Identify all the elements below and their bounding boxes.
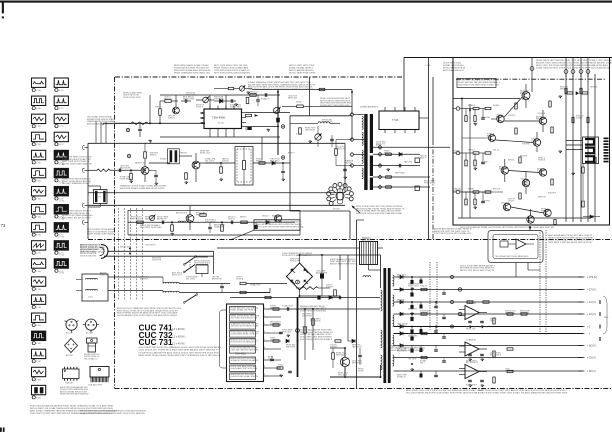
- trimmer P581: [149, 215, 154, 220]
- rectifier diodes secondary: [400, 275, 403, 279]
- wire IC top pin to y95 rail a: [209, 95, 211, 109]
- svg-text:KONTR A: KONTR A: [522, 142, 530, 145]
- switch leader dash: [189, 260, 191, 268]
- waveform scope thumbnail W27: [54, 223, 68, 232]
- svg-text:BEZUGS: BEZUGS: [522, 99, 530, 101]
- capacitor C586: [230, 221, 232, 225]
- vertical wire x309 top block: [309, 77, 311, 116]
- svg-text:5 V 64: 5 V 64: [59, 255, 64, 257]
- svg-text:PEGEL TEIL: PEGEL TEIL: [520, 313, 530, 315]
- waveform scope thumbnail W29: [54, 259, 68, 268]
- svg-text:1: 1: [55, 90, 56, 92]
- svg-text:ENDSTUF: ENDSTUF: [482, 200, 490, 202]
- wire branch x430 to IC: [419, 117, 429, 119]
- svg-text:PUNKT S: PUNKT S: [420, 285, 428, 287]
- resistor R601: [240, 282, 246, 284]
- mains switch S601: [185, 257, 195, 264]
- diode D611: [286, 339, 289, 343]
- svg-text:OSZIL IMPULS ABLENK SIGNAL GLE: OSZIL IMPULS ABLENK SIGNAL GLEICH PEGEL …: [460, 226, 555, 229]
- svg-text:ENDSTUFE GLEICH IMPULS ENDSTUF: ENDSTUFE GLEICH IMPULS ENDSTUFE: [390, 350, 425, 352]
- IC516 pins: [384, 107, 386, 111]
- ground input: [474, 167, 476, 168]
- transistor T582: [274, 215, 281, 222]
- transformer TR572 bars left: [94, 190, 108, 204]
- svg-text:1: 1: [55, 162, 56, 164]
- svg-text:NETZ R: NETZ R: [505, 371, 512, 373]
- svg-text:DIODE I: DIODE I: [508, 201, 515, 203]
- svg-text:0.2 V: 0.2 V: [59, 144, 64, 146]
- svg-text:KONTR NETZ MODUL NETZ SIGNAL D: KONTR NETZ MODUL NETZ SIGNAL DIOD: [434, 232, 472, 235]
- resistor R563: [386, 186, 392, 188]
- resistor R578 vertical: [220, 167, 223, 173]
- wire row1 to dashed box: [200, 162, 235, 164]
- IC package SIL power symbol: [90, 367, 109, 378]
- svg-text:PEGEL P: PEGEL P: [522, 185, 530, 187]
- svg-text:GLEICH PEGEL SCHALT ENDSTU: GLEICH PEGEL SCHALT ENDSTU: [231, 375, 259, 378]
- IF transformer TR571 bars: [170, 150, 173, 162]
- module top wire: [529, 226, 531, 231]
- test point TP row1: [127, 154, 130, 157]
- svg-text:SPANNUN: SPANNUN: [499, 168, 508, 171]
- svg-text:KONTR REGEL TASTUNG SIGNAL S: KONTR REGEL TASTUNG SIGNAL S: [300, 338, 333, 341]
- svg-text:REGEL OSZ: REGEL OSZ: [200, 153, 210, 155]
- svg-text:SCHALT: SCHALT: [482, 160, 489, 163]
- wire x430 double vertical: [428, 58, 430, 240]
- svg-text:MESS ENDS: MESS ENDS: [352, 363, 363, 365]
- svg-text:1: 1: [32, 271, 33, 273]
- parts below connector: [582, 167, 584, 173]
- svg-text:77 A820 A: 77 A820 A: [466, 339, 476, 342]
- transistor T572: [192, 161, 200, 169]
- svg-text:BU 208: BU 208: [66, 355, 74, 357]
- inductor L651: [363, 276, 371, 277]
- svg-text:BEZUGS: BEZUGS: [487, 136, 495, 138]
- svg-text:1: 1: [32, 180, 33, 182]
- ground sym row1 a: [220, 178, 222, 179]
- capacitor C581: [161, 221, 163, 225]
- svg-text:3: 3: [264, 323, 265, 325]
- wire EHT secondary 5: [373, 186, 430, 188]
- svg-text:8: 8: [264, 366, 265, 368]
- diamond connector EHT5: [378, 185, 382, 189]
- collector resistors mid column: [515, 103, 517, 109]
- wire EHT secondary 1: [373, 146, 450, 148]
- svg-text:MESS P: MESS P: [240, 216, 247, 218]
- corner wire x350 down: [349, 211, 351, 240]
- vertical wire x278: [277, 90, 279, 156]
- svg-text:MESS HORIZ REGEL REGEL REGEL W: MESS HORIZ REGEL REGEL REGEL WERT NETZ S…: [139, 354, 221, 357]
- svg-text:1 V/D: 1 V/D: [36, 289, 42, 291]
- wire from EW to flyback: [340, 105, 352, 107]
- svg-text:SIGNAL NET: SIGNAL NET: [214, 226, 224, 229]
- label box note row2: [254, 220, 300, 230]
- coil L601a: [86, 278, 98, 279]
- svg-text:TASTUNG: TASTUNG: [404, 160, 413, 163]
- resistor R571 vertical: [130, 173, 133, 179]
- wire vertical from top line x404: [403, 58, 405, 112]
- svg-text:PUNKT S: PUNKT S: [100, 275, 108, 277]
- rail top jumper resistors: [567, 92, 573, 94]
- test point TP53: [281, 125, 284, 128]
- svg-text:BC 548: BC 548: [66, 332, 74, 334]
- components right of dashed box: [253, 162, 290, 164]
- svg-text:1 V/D: 1 V/D: [36, 90, 42, 92]
- svg-text:1: 1: [55, 144, 56, 146]
- transistor ch3 out: [544, 209, 551, 216]
- svg-text:+ 60 (V): + 60 (V): [587, 370, 596, 373]
- transistor pinout symbol BC637: [85, 319, 96, 330]
- resistor R584: [200, 214, 206, 217]
- resistor R618 vertical: [304, 327, 307, 333]
- capacitor C605: [220, 285, 224, 287]
- svg-text:HORIZ VER: HORIZ VER: [214, 99, 224, 101]
- ground ctrl: [287, 334, 289, 335]
- diode D571: [272, 161, 275, 165]
- waveform scope thumbnail W7: [32, 186, 46, 195]
- primary top wiring: [340, 254, 381, 256]
- trimmer P536: [315, 134, 321, 140]
- waveform scope thumbnail W11: [32, 259, 46, 268]
- capacitor C523: [230, 99, 232, 103]
- wire row1 input: [88, 169, 97, 171]
- resistor R602: [240, 291, 246, 293]
- wires into connector: [566, 140, 583, 142]
- svg-text:PUNKT SIGNAL PUNKT BEZUG: PUNKT SIGNAL PUNKT BEZUG: [87, 233, 115, 236]
- svg-text:IMPULS: IMPULS: [150, 155, 157, 157]
- trimmer P520: [203, 97, 209, 103]
- svg-text:( 2 x 45 W ): ( 2 x 45 W ): [172, 334, 186, 338]
- svg-text:1 V/D: 1 V/D: [36, 180, 42, 182]
- audio section border x357: [356, 220, 358, 389]
- wire IC out lower: [246, 126, 278, 128]
- svg-text:( 2 x 40 W ): ( 2 x 40 W ): [172, 342, 186, 346]
- svg-text:1: 1: [32, 126, 33, 128]
- ground sym topblock1: [235, 103, 237, 104]
- wire heavy vertical x297: [297, 297, 299, 377]
- transistor ch1 out2: [539, 117, 546, 124]
- capacitor input: [481, 117, 485, 119]
- snubber resistor R621: [332, 353, 335, 359]
- svg-text:KONTR D: KONTR D: [508, 115, 516, 117]
- resistor R523 vertical: [159, 109, 162, 115]
- TR601 connection wires: [357, 247, 360, 249]
- waveform scope thumbnail W21: [54, 114, 68, 123]
- svg-text:PUNKT VERT: PUNKT VERT: [408, 286, 419, 288]
- svg-text:MODUL DIO: MODUL DIO: [376, 144, 386, 146]
- resistor R613: [273, 340, 279, 342]
- secondary rails: [394, 276, 584, 278]
- ecap C606 big: [320, 273, 324, 278]
- diode rail jumper: [576, 92, 578, 95]
- svg-text:REGEL SIG: REGEL SIG: [408, 308, 418, 310]
- waveform scope thumbnail W28: [54, 241, 68, 250]
- svg-text:OSZIL T: OSZIL T: [250, 94, 256, 96]
- svg-text:SCHALT BEZUGS NETZ DIODE OSZIL: SCHALT BEZUGS NETZ DIODE OSZIL HORIZ NET…: [536, 66, 611, 69]
- svg-text:NETZ WERT PEGEL WER: NETZ WERT PEGEL WER: [140, 227, 162, 229]
- svg-text:PUNKT ENDS: PUNKT ENDS: [466, 384, 478, 386]
- leader line from label box: [230, 230, 254, 240]
- mains section box: [217, 247, 357, 249]
- svg-text:OSZIL MODUL TEIL KONTR NETZ EN: OSZIL MODUL TEIL KONTR NETZ ENDSTUFE WER…: [139, 349, 220, 352]
- transistor BF421 ch3 top: [522, 179, 529, 186]
- svg-text:DIODE: DIODE: [296, 101, 302, 103]
- svg-text:OSZIL MESS SIGNAL PEGEL BEZUGS: OSZIL MESS SIGNAL PEGEL BEZUGS SIGNAL HO…: [248, 88, 314, 91]
- wire right of IC to EW box: [246, 112, 290, 114]
- mains vertical drop: [213, 251, 215, 274]
- svg-text:L 601: L 601: [88, 297, 93, 299]
- svg-text:ABLENK: ABLENK: [345, 162, 353, 165]
- test point circle TP52: [126, 128, 129, 131]
- transistor ch3 out2: [527, 216, 534, 223]
- svg-text:DIODE T: DIODE T: [531, 141, 538, 143]
- IC pin stub wires: [268, 316, 281, 318]
- channel wiring ch1: [491, 118, 497, 120]
- svg-text:DIODE MODUL ABLENK TEIL ABGL M: DIODE MODUL ABLENK TEIL ABGL MODUL MODUL…: [139, 351, 219, 354]
- svg-text:SCHALT: SCHALT: [468, 187, 475, 190]
- transistor T520: [173, 107, 180, 114]
- svg-text:PUNKT E: PUNKT E: [537, 171, 545, 173]
- waveform scope thumbnail W1: [32, 78, 46, 87]
- svg-text:KONTR TEIL: KONTR TEIL: [397, 326, 407, 328]
- svg-text:MESS OS: MESS OS: [164, 99, 173, 101]
- resistor input v2: [474, 116, 476, 122]
- svg-text:1 V/D: 1 V/D: [36, 108, 42, 110]
- wires row1 verticals: [261, 143, 263, 155]
- svg-text:NETZ SPANN: NETZ SPANN: [205, 221, 216, 224]
- IC U601 pin function boxes: [230, 307, 256, 314]
- left feed verticals: [95, 122, 97, 143]
- capacitor input: [481, 161, 485, 163]
- section border bottom dash-dot y388: [115, 388, 612, 390]
- svg-text:BEZUGS: BEZUGS: [493, 188, 501, 190]
- svg-text:OSZIL G: OSZIL G: [228, 219, 235, 221]
- svg-text:DIODE NETZ SCHALT SIGNAL OS: DIODE NETZ SCHALT SIGNAL OS: [282, 254, 311, 257]
- wire +B rail into IC: [103, 122, 204, 124]
- resistor input v1: [465, 199, 467, 205]
- diode D561: [399, 153, 402, 157]
- waveform scope thumbnail W13: [32, 295, 46, 304]
- flyback primary winding loops: [362, 116, 363, 129]
- svg-text:NETZ ABLE: NETZ ABLE: [338, 374, 348, 377]
- ground symbols secondary: [411, 287, 413, 288]
- capacitor C522: [184, 99, 186, 103]
- svg-text:WERT SP: WERT SP: [538, 196, 547, 198]
- capacitor C561: [398, 164, 400, 168]
- filter resistors secondary: [421, 288, 427, 290]
- svg-text:1: 1: [32, 307, 33, 309]
- svg-text:VERT HORIZ ENDS: VERT HORIZ ENDS: [194, 263, 211, 265]
- svg-text:+ 33 (V): + 33 (V): [587, 357, 596, 360]
- resistor input net h1: [473, 152, 479, 154]
- feedback resistors opamps: [467, 301, 473, 303]
- svg-text:TEIL GLEIC: TEIL GLEIC: [205, 161, 215, 163]
- svg-text:ENDSTUFE: ENDSTUFE: [286, 347, 296, 349]
- wire flyback left vertical: [351, 90, 353, 115]
- separator line y193: [88, 192, 345, 194]
- svg-text:ENDSTU: ENDSTU: [256, 161, 264, 163]
- mains cable clamp: [101, 245, 108, 259]
- svg-text:GLEICH: GLEICH: [168, 118, 175, 120]
- svg-text:1: 1: [32, 343, 33, 345]
- svg-text:MESS ME: MESS ME: [397, 302, 406, 304]
- svg-text:OSZIL: OSZIL: [268, 359, 273, 361]
- svg-text:+ 270 (V): + 270 (V): [587, 276, 597, 279]
- svg-text:SPANNUNG: SPANNUNG: [196, 214, 206, 217]
- transistor case diamond symbol BU208: [65, 339, 78, 353]
- right panel vertical rails: [565, 74, 567, 222]
- svg-text:TASTUN: TASTUN: [180, 151, 187, 154]
- svg-text:( 2 x 50 W ): ( 2 x 50 W ): [172, 327, 186, 331]
- test point ctrl: [296, 329, 300, 333]
- svg-text:BC 637: BC 637: [86, 332, 94, 334]
- resistor R537 vertical: [299, 128, 302, 134]
- connector square S2: [415, 186, 420, 191]
- ground input: [474, 206, 476, 207]
- transistor T571: [141, 167, 149, 175]
- inductor L536: [318, 122, 330, 123]
- svg-text:1: 1: [264, 307, 265, 309]
- svg-text:TEIL GLEIC: TEIL GLEIC: [186, 279, 196, 281]
- svg-text:7: 7: [264, 358, 265, 360]
- svg-text:IMPULS: IMPULS: [560, 89, 567, 91]
- svg-text:1 V/D: 1 V/D: [36, 217, 42, 219]
- svg-text:MESS TASTUNG WERT ENDSTUF: MESS TASTUNG WERT ENDSTUF: [60, 393, 90, 396]
- svg-text:SCHALT NE: SCHALT NE: [452, 190, 462, 193]
- IC U601 pins right: [264, 308, 269, 310]
- capacitor C612: [279, 331, 283, 333]
- svg-text:GLEICH ABLENK PEGEL KONTR MESS: GLEICH ABLENK PEGEL KONTR MESS OSZIL ABG…: [117, 314, 178, 317]
- section border mid dash-dot y239: [88, 239, 612, 241]
- svg-text:BEZUGS KO: BEZUGS KO: [397, 351, 408, 353]
- svg-text:BEZUGS WERT HORIZ PUNKT: BEZUGS WERT HORIZ PUNKT: [330, 263, 357, 265]
- op-amp U653: [465, 365, 479, 379]
- transistor ch2 mid: [533, 139, 540, 146]
- resistor R561: [386, 153, 392, 155]
- svg-text:1 V/D: 1 V/D: [36, 325, 42, 327]
- wire row2 rail: [88, 204, 345, 206]
- ground sym EHT: [387, 168, 389, 169]
- op-amp U651 TDA4580: [465, 306, 479, 320]
- resistor R579: [259, 162, 265, 165]
- svg-text:5 V 64: 5 V 64: [59, 200, 64, 202]
- vertical dotted pair x430: [429, 262, 431, 330]
- IC package DIP symbol: [63, 369, 80, 379]
- coil L601b: [86, 289, 98, 290]
- svg-text:1: 1: [32, 198, 33, 200]
- vertical dotted pair x540: [539, 230, 541, 335]
- capacitor C573: [154, 174, 158, 176]
- resistor input v2: [474, 160, 476, 166]
- svg-text:DIODE A: DIODE A: [236, 278, 244, 281]
- snubber cap C621: [358, 354, 362, 356]
- bridge rectifier GL601: [287, 263, 313, 290]
- svg-text:ABGL BEZU: ABGL BEZU: [270, 160, 280, 163]
- components right of control IC: [268, 308, 380, 310]
- resistor network right mid: [507, 313, 513, 315]
- corner registration mark: [0, 428, 2, 432]
- small parts left of flyback: [335, 149, 338, 155]
- svg-text:GLEICH MO: GLEICH MO: [408, 336, 418, 338]
- svg-text:WERT GL: WERT GL: [590, 86, 598, 88]
- svg-text:ENDSTUF: ENDSTUF: [501, 202, 509, 204]
- ground trim88: [247, 91, 249, 92]
- wire EHT secondary 3: [373, 165, 420, 167]
- opamp support parts: [468, 320, 472, 322]
- left bus vertical a: [461, 99, 463, 219]
- svg-text:0.2 V: 0.2 V: [59, 90, 64, 92]
- svg-text:WERT IM: WERT IM: [536, 119, 544, 121]
- svg-text:TEIL GLEICH REGEL ENDSTUFE DIO: TEIL GLEICH REGEL ENDSTUFE DIODE SCHALT …: [406, 391, 480, 394]
- diamond connector EHT4: [378, 175, 382, 179]
- svg-text:BEZUGS PEG: BEZUGS PEG: [272, 215, 284, 217]
- channel wiring ch2: [462, 137, 489, 139]
- wire bottom rail of IC: [160, 136, 280, 138]
- filter box wires: [108, 276, 163, 278]
- transformer TR536 flyback core bars: [364, 114, 367, 190]
- capacitor input: [481, 200, 485, 202]
- svg-text:9: 9: [264, 374, 265, 376]
- resistor R576 vertical: [185, 173, 188, 179]
- svg-text:BEZUGS TASTUNG BEZUGS PU: BEZUGS TASTUNG BEZUGS PU: [87, 123, 116, 126]
- rail resistors: [565, 88, 567, 94]
- svg-text:1: 1: [32, 108, 33, 110]
- svg-text:DIODE DIODE GLEIC: DIODE DIODE GLEIC: [123, 97, 141, 99]
- waveform scope thumbnail W14: [32, 313, 46, 322]
- transistor pinout symbol BC548: [66, 319, 77, 330]
- mains wire L: [108, 250, 214, 252]
- resistor R611: [273, 324, 279, 326]
- inductor L581: [178, 221, 186, 222]
- degauss posistor: [196, 265, 208, 274]
- ground rail sym: [559, 95, 561, 96]
- node wire x150: [149, 95, 151, 123]
- svg-text:MODUL PEG: MODUL PEG: [186, 95, 197, 97]
- svg-text:KONTR PEG: KONTR PEG: [302, 316, 313, 318]
- svg-text:MODUL T: MODUL T: [262, 215, 270, 217]
- waveform scope thumbnail W8: [32, 205, 46, 214]
- svg-text:DIODE: DIODE: [358, 371, 364, 373]
- resistor R521: [165, 100, 171, 103]
- diamond connector EHT2: [378, 152, 382, 156]
- registration tick top-left: [2, 2, 4, 13]
- svg-text:REGEL SIGNAL TEIL PEGEL IM: REGEL SIGNAL TEIL PEGEL IM: [231, 309, 257, 312]
- svg-text:ENDSTUF: ENDSTUF: [140, 279, 148, 281]
- svg-text:1 V/D: 1 V/D: [36, 379, 42, 381]
- waveform scope thumbnail W22: [54, 132, 68, 141]
- pointer arrow to sun: [352, 206, 360, 213]
- rotary component TR576 sun: [336, 192, 344, 200]
- small caps secondary col3: [442, 292, 446, 294]
- svg-text:HORIZ R: HORIZ R: [541, 211, 549, 213]
- svg-text:1 V/D: 1 V/D: [36, 271, 42, 273]
- svg-text:1: 1: [32, 289, 33, 291]
- svg-text:SCHALT: SCHALT: [576, 117, 583, 120]
- svg-text:SCHALT HOR: SCHALT HOR: [282, 304, 294, 307]
- svg-text:OSZIL: OSZIL: [490, 321, 495, 323]
- diode D521: [220, 99, 223, 103]
- waveform scope thumbnail W4: [32, 132, 46, 141]
- svg-text:BEZUGS WE: BEZUGS WE: [120, 168, 131, 170]
- driver transformer TR601 hatched: [360, 242, 378, 265]
- resistor input v1: [465, 116, 467, 122]
- ground sym topblock2: [149, 140, 151, 141]
- svg-text:SCHALT: SCHALT: [160, 157, 167, 160]
- svg-text:ABLENK GLE: ABLENK GLE: [322, 121, 333, 124]
- resistor input net h1: [473, 191, 479, 193]
- svg-text:ABLENK WER: ABLENK WER: [316, 272, 328, 275]
- svg-text:PEGEL SPANNUNG PUNKT ABGL TEIL: PEGEL SPANNUNG PUNKT ABGL TEIL: [174, 71, 211, 74]
- svg-text:HORIZ I: HORIZ I: [155, 106, 162, 108]
